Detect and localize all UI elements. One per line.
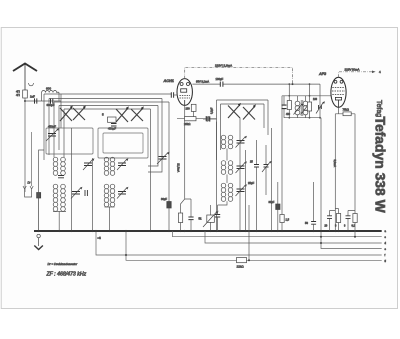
resistor cathode bias (178, 213, 182, 223)
svg-text:≈5: ≈5 (98, 236, 102, 240)
IF trimmer arrows (294, 104, 303, 115)
caps right of middle block (256, 140, 258, 231)
left loop verticals (44, 94, 64, 160)
wire input line (25, 100, 61, 102)
left tuner rail 4 (59, 105, 158, 107)
svg-text:95V 3,1mA: 95V 3,1mA (196, 80, 209, 84)
wave switch S2b (131, 107, 144, 121)
svg-text:100µF: 100µF (216, 77, 224, 81)
coil L5b (228, 135, 233, 149)
svg-text:3,3mA: 3,3mA (333, 160, 337, 168)
trimmer T4 (118, 192, 126, 195)
resistor 12k on line g (237, 258, 247, 263)
wire tube cathode down (181, 121, 192, 217)
wave switch S1a (60, 106, 73, 121)
svg-text:11,5mA: 11,5mA (177, 163, 181, 172)
bus line e (321, 231, 382, 249)
measure line 223V 30mA (339, 72, 373, 78)
antenna socket arc (29, 83, 34, 86)
left inner loop 2 (98, 128, 148, 158)
left inner loop 1 (46, 128, 93, 154)
bus line d (205, 231, 382, 243)
svg-text:400: 400 (286, 113, 291, 116)
bus line c (173, 231, 382, 237)
wave switch S3a (228, 103, 241, 118)
svg-text:4Π: 4Π (16, 93, 20, 97)
middle block verticals (217, 118, 250, 260)
svg-text:Tefag: Tefag (375, 100, 382, 117)
trimmer T8 (237, 189, 245, 192)
svg-text:ZF : 468/473 kHz: ZF : 468/473 kHz (46, 272, 87, 278)
wave switch S3b (243, 105, 256, 120)
capacitor between coil rows (58, 176, 64, 178)
resistor under tube (191, 104, 196, 111)
bus end letters (385, 230, 387, 263)
capacitor bottom right 2 (346, 216, 351, 219)
capacitor C5 (85, 190, 87, 196)
coil L4b (110, 184, 115, 207)
resistor bottom right 1 (336, 214, 340, 223)
svg-text:100: 100 (313, 98, 318, 101)
trimmer T9 (264, 165, 269, 168)
RC between switches (108, 117, 117, 122)
svg-text:100: 100 (186, 108, 191, 111)
junction dots on buses (38, 230, 357, 261)
capacitor C7 (206, 116, 209, 121)
grid cap dark (319, 105, 322, 109)
cap 50 on screen line (311, 222, 316, 225)
svg-text:223V | 2,9mA: 223V | 2,9mA (215, 63, 232, 67)
grid capacitor into ACH1 (171, 92, 173, 97)
svg-text:0,1µF: 0,1µF (211, 107, 214, 114)
antenna (13, 64, 37, 91)
AF3 anode to 75k (335, 107, 343, 114)
svg-text:75kΩ: 75kΩ (343, 108, 349, 112)
feed resistor (288, 84, 290, 118)
grid resistor (309, 84, 311, 118)
switch contact box (37, 193, 41, 199)
cap on left of middle block (203, 118, 217, 120)
resistor 20k (185, 117, 197, 121)
cathode line with 20k (177, 105, 217, 118)
middle block rails (217, 100, 269, 104)
earth socket forks (23, 186, 33, 197)
trimmer T5 (159, 157, 167, 160)
middle loop verticals (217, 100, 269, 160)
coil L2b (110, 157, 115, 175)
wire antenna down (24, 98, 26, 192)
left tuner rail 2 (49, 98, 162, 100)
coil L3a (53, 184, 58, 211)
svg-text:Tefadyn 338 W: Tefadyn 338 W (373, 117, 389, 214)
electrolytic 30uF (167, 202, 171, 209)
wire coil bottoms to bus (53, 207, 115, 231)
wire long vertical x92 (92, 158, 94, 231)
node antenna/input junction (24, 100, 26, 102)
IF transformer primary (295, 101, 300, 115)
svg-text:ACH1: ACH1 (163, 79, 174, 83)
wire RC to loop2 (115, 127, 117, 128)
coil L6a (221, 161, 226, 175)
coil L5a (221, 135, 226, 149)
wire long vertical x71 (71, 128, 73, 231)
capacitor beside pot (215, 215, 220, 218)
main ground bus (thick) (34, 230, 382, 232)
left tuner rail 5 (64, 108, 151, 110)
coil L1b (61, 157, 66, 175)
svg-text:600pF: 600pF (47, 103, 55, 107)
trimmer T2 (118, 163, 126, 166)
trimmer cap AF3 grid (316, 102, 324, 114)
ground symbol (34, 198, 43, 250)
output section bottom line (284, 117, 321, 119)
anode line 95V (192, 83, 320, 85)
coil L3b (61, 184, 66, 211)
svg-text:25pF: 25pF (248, 181, 254, 185)
screen column with cap (282, 96, 284, 215)
wire rail4 closed loop (148, 106, 158, 167)
svg-text:12kΩ: 12kΩ (237, 265, 245, 269)
coil L7a (221, 183, 226, 201)
svg-text:450pF: 450pF (108, 127, 116, 131)
svg-text:AF3: AF3 (318, 72, 327, 76)
output section top line (284, 95, 331, 97)
capacitor C1 1nF (35, 98, 37, 103)
electrolytic 30uF right (277, 182, 279, 204)
wire vertical x271 (271, 128, 273, 231)
svg-text:30µF: 30µF (269, 201, 275, 204)
bus line f (96, 231, 382, 255)
svg-text:30µF: 30µF (161, 197, 167, 201)
left tuner rail 3 (54, 101, 169, 103)
resistor 1.5 (280, 215, 284, 223)
left tuner rail 1 (44, 93, 171, 95)
wire from socket up (31, 132, 33, 186)
tube AF3 (331, 77, 346, 107)
svg-text:Dr = Drehkondensator: Dr = Drehkondensator (48, 262, 79, 266)
wire rail3 drop to 30uF (168, 102, 170, 202)
tube ACH1 (177, 79, 192, 106)
resistor 600 (loop above line) (42, 93, 59, 102)
capacitor C8 (188, 217, 193, 220)
coil L2a (104, 157, 109, 175)
coil L7b (228, 183, 233, 201)
wave switch S2a (116, 107, 129, 122)
capacitor C2 600pF (51, 98, 53, 103)
coil L4a (104, 184, 109, 207)
resistor 75k (343, 112, 351, 116)
IF transformer core (301, 100, 303, 116)
svg-text:223V 30mA: 223V 30mA (345, 67, 360, 71)
coil L6b (228, 161, 233, 175)
capacitor 100uF (220, 82, 223, 87)
left inner loop 2b (103, 133, 143, 153)
resistor bottom right 2 (353, 214, 357, 223)
svg-text:1nF: 1nF (30, 94, 35, 98)
wave switch S1b (73, 106, 86, 120)
volume pot (210, 205, 212, 231)
wire riser to band switch rails (60, 94, 62, 128)
capacitor bottom right 1 (327, 216, 332, 219)
wire rail5 drop (150, 109, 152, 231)
trimmer T6 (237, 141, 245, 144)
coil L1a (53, 157, 58, 175)
wire riser to e-line (320, 118, 322, 231)
resistor 4R (antenna series) (23, 90, 28, 98)
IF transformer secondary (303, 101, 308, 115)
trimmer T7 (237, 166, 245, 169)
svg-text:600: 600 (46, 87, 51, 91)
variable capacitor left (48, 134, 56, 137)
bus line g (126, 231, 382, 260)
measure line 223V 2.9mA (185, 67, 293, 84)
svg-text:1,5: 1,5 (286, 218, 290, 222)
wire rail2 closed loop (148, 99, 162, 173)
trimmer T3 (72, 192, 80, 195)
trimmer T1 (84, 163, 92, 166)
